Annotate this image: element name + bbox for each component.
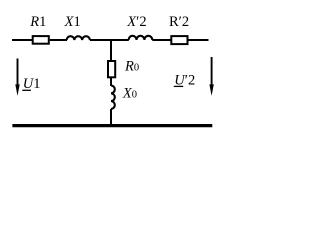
wire bottom rail [12, 124, 212, 127]
wire shunt branch upper [110, 40, 112, 62]
wire R1 to X1 [50, 39, 67, 41]
wire top rail left segment [12, 39, 33, 41]
wire R'2 to right terminal [189, 39, 209, 41]
wire X1 to X'2 through node [90, 39, 129, 41]
wire X0 to bottom rail [110, 109, 112, 126]
wire X'2 to R'2 [152, 39, 171, 41]
svg-text:R′2: R′2 [169, 14, 189, 30]
inductor X1 [67, 36, 90, 40]
resistor R'2 [171, 36, 187, 44]
resistor R0 [108, 61, 115, 77]
svg-text:R1: R1 [29, 14, 46, 30]
resistor R1 [33, 36, 49, 44]
wire R0 to X0 [110, 77, 112, 86]
svg-text:X′2: X′2 [126, 14, 146, 30]
inductor X0 [111, 86, 115, 109]
arrow U1 [17, 59, 19, 87]
arrow U'2 [211, 57, 213, 86]
svg-text:X1: X1 [64, 14, 81, 30]
inductor X'2 [129, 36, 153, 40]
